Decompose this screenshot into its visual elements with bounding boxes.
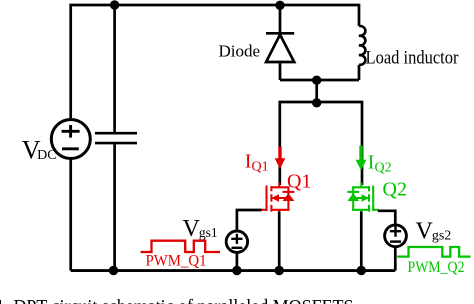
wire V_gs1 bottom bbox=[236, 252, 239, 270]
node dot load link bbox=[312, 76, 321, 85]
node dot capacitor top bbox=[110, 0, 119, 9]
mosfet Q1 bbox=[261, 183, 294, 213]
svg-text:1. DPT circuit schematic of p: 1. DPT circuit schematic of paralleled M… bbox=[0, 296, 354, 304]
node dot diode top bbox=[275, 1, 284, 10]
node dot Q1 source bbox=[275, 266, 284, 275]
waveform PWM_Q2 bbox=[397, 247, 470, 257]
node dot capacitor bottom bbox=[109, 266, 118, 275]
load inductor coil bbox=[359, 26, 365, 65]
node dot Q2 source bbox=[357, 266, 366, 275]
wire top bus bbox=[71, 5, 359, 119]
wire bottom bus bbox=[71, 269, 396, 272]
wire V_gs2 bottom bbox=[394, 247, 397, 271]
current arrow I_Q1 bbox=[275, 147, 286, 170]
svg-text:PWM_Q1: PWM_Q1 bbox=[146, 252, 207, 269]
wire load drop bbox=[315, 80, 318, 102]
capacitor C bbox=[95, 133, 137, 143]
wire drain bus bbox=[280, 102, 362, 185]
wire capacitor branch top bbox=[113, 5, 116, 132]
svg-text:Q1: Q1 bbox=[287, 171, 311, 193]
mosfet Q2 bbox=[347, 183, 378, 213]
wire Q2 source bbox=[360, 212, 363, 271]
wire inductor bottom bbox=[358, 65, 361, 80]
voltage source V_DC bbox=[51, 120, 90, 159]
wire Q1 source bbox=[278, 212, 281, 271]
diode D (freewheeling) bbox=[266, 33, 294, 62]
wire capacitor branch bottom bbox=[113, 144, 116, 270]
wire diode branch bbox=[279, 5, 282, 80]
wire diode-inductor link bbox=[280, 79, 359, 82]
node dot V_gs1 bottom bbox=[232, 266, 241, 275]
wire V_gs2 gate link bbox=[378, 211, 396, 225]
wire left bottom bbox=[69, 159, 72, 271]
waveform PWM_Q1 bbox=[141, 241, 220, 252]
svg-text:Diode: Diode bbox=[219, 42, 261, 61]
current arrow I_Q2 bbox=[356, 146, 367, 171]
source V_gs2 bbox=[385, 225, 407, 247]
svg-text:PWM_Q2: PWM_Q2 bbox=[408, 259, 465, 276]
svg-text:Q2: Q2 bbox=[383, 179, 407, 201]
source V_gs1 bbox=[226, 231, 247, 252]
wire V_gs1 gate link bbox=[237, 210, 262, 232]
svg-text:Load inductor: Load inductor bbox=[366, 48, 460, 69]
node dot drain bus bbox=[312, 98, 321, 107]
